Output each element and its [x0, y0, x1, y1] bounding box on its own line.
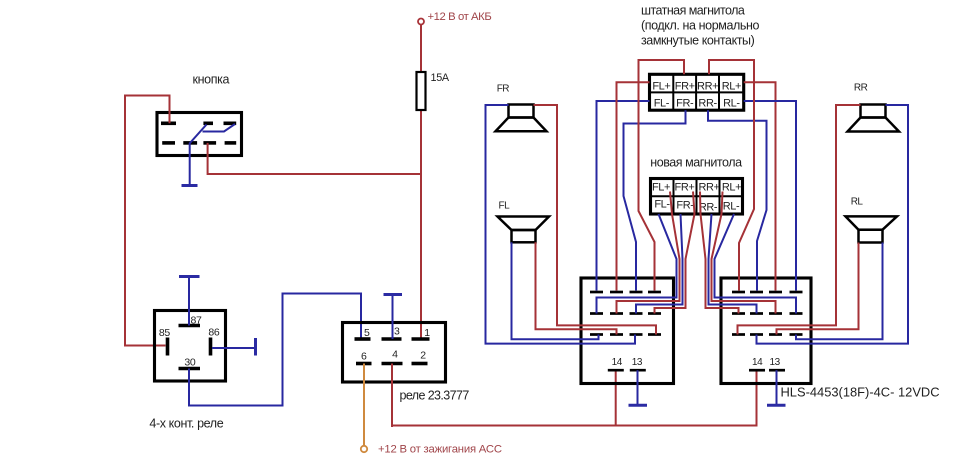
svg-text:2: 2 — [420, 350, 426, 362]
antenna bar pin87 — [179, 275, 200, 278]
K3 row2 pins — [590, 312, 661, 315]
ground bar K4 — [767, 404, 786, 407]
svg-text:новая магнитола: новая магнитола — [650, 156, 742, 170]
svg-text:RR: RR — [854, 83, 868, 94]
svg-text:RL-: RL- — [723, 201, 740, 213]
svg-text:RR+: RR+ — [697, 80, 718, 92]
wire new FR- to K3 row2 col3 (blue) — [636, 214, 683, 314]
wire stock FR+ staple to K3 row1 col4 (red) — [639, 60, 685, 291]
svg-text:замкнутые контакты): замкнутые контакты) — [641, 33, 755, 47]
wire stock FR- to K3 row1 col3 (blue) — [624, 110, 686, 290]
wire new FL- to K3 row2 col1 (blue) — [597, 214, 677, 314]
svg-text:FR+: FR+ — [675, 182, 695, 194]
relay K2 pin 6 — [356, 362, 372, 366]
svg-text:RL+: RL+ — [722, 182, 741, 194]
svg-text:RR-: RR- — [699, 202, 718, 214]
stock connector dividers — [650, 74, 744, 110]
svg-text:FL-: FL- — [654, 199, 670, 211]
wire bus to left relay pin14 — [615, 370, 617, 426]
svg-text:+12 В от АКБ: +12 В от АКБ — [428, 11, 492, 23]
wire button to fuse line (red) — [208, 143, 421, 174]
relay K2 pin 2 — [412, 362, 428, 366]
K4 row1 pins — [732, 291, 803, 294]
svg-text:86: 86 — [208, 326, 219, 338]
wire pin4 down (red) — [391, 364, 393, 428]
wire stock FL+ to K3 row1 col2 (red) — [617, 82, 650, 290]
wire new FR+ to K3 row2 col4 (red) — [655, 192, 695, 314]
wire K3 pin13 ground stem — [637, 370, 639, 404]
svg-text:3: 3 — [394, 326, 400, 338]
relay K1 pin 30 — [179, 367, 201, 371]
wire new FL+ to K3 row2 col2 (red) — [617, 192, 680, 314]
wire pin30 to relay23 pin5 (blue) — [189, 294, 361, 406]
svg-text:87: 87 — [191, 315, 202, 327]
wire button ground stem — [189, 143, 191, 185]
wire pin87 up — [188, 278, 190, 326]
button ground bar — [182, 184, 198, 187]
svg-text:FL+: FL+ — [652, 80, 670, 92]
svg-text:FR-: FR- — [676, 98, 694, 110]
wire new RL+ to K4 row2 col3 (red) — [712, 192, 776, 314]
new labels row2 — [654, 199, 740, 214]
svg-text:RR-: RR- — [698, 98, 717, 110]
relay K4 right HLS box — [721, 278, 811, 384]
relay K1 pin 86 — [209, 338, 213, 356]
relay K2 pin 4 — [382, 362, 403, 366]
wire new RL- to K4 row2 col4 (blue) — [715, 214, 797, 314]
svg-text:13: 13 — [632, 357, 643, 368]
bottom bus red — [392, 425, 757, 427]
svg-text:HLS-4453(18F)-4C- 12VDC: HLS-4453(18F)-4C- 12VDC — [781, 385, 940, 400]
svg-text:RR+: RR+ — [698, 182, 719, 194]
wire new RR+ to K4 row2 col1 (red) — [700, 192, 739, 314]
K4 pin 14 — [749, 369, 765, 372]
new connector box — [651, 179, 743, 215]
button S1 box — [157, 113, 242, 156]
button pin bottom-1 — [162, 141, 175, 145]
terminal ACC — [361, 446, 367, 452]
wire new RR- to K4 row2 col2 (blue) — [709, 214, 757, 314]
speaker RR body — [861, 105, 886, 118]
svg-text:FR: FR — [497, 83, 510, 94]
new labels row1 — [652, 182, 741, 194]
speaker FR cone — [496, 118, 547, 132]
svg-text:15A: 15A — [431, 72, 450, 84]
svg-text:штатная магнитола: штатная магнитола — [641, 4, 745, 18]
relay K1 pin 85 — [166, 338, 170, 356]
stock connector box — [650, 74, 744, 110]
speaker RL body — [859, 230, 883, 243]
wire RL- to K4 row3 col4 (blue) — [796, 243, 883, 340]
svg-text:5: 5 — [364, 327, 370, 339]
button pin bottom-4 — [225, 141, 237, 145]
ground bar above pin3 — [384, 293, 403, 296]
svg-text:FR-: FR- — [676, 200, 694, 212]
fuse F1 15A — [417, 72, 426, 110]
stock labels row1 — [652, 80, 741, 92]
ground bar right of 86 — [254, 338, 257, 356]
svg-text:1: 1 — [424, 327, 430, 339]
svg-text:14: 14 — [612, 357, 623, 368]
terminal +12 AKB — [418, 19, 424, 25]
wire bus to right relay pin14 — [756, 370, 758, 426]
wire pin6 to ACC (orange) — [363, 364, 365, 446]
K4 pin 13 — [769, 369, 785, 372]
wire FL+ to K3 row3 col2 (red) — [536, 242, 617, 334]
K3 row3 pins — [590, 333, 661, 336]
svg-text:реле 23.3777: реле 23.3777 — [400, 389, 470, 403]
ground bar K3 — [629, 404, 648, 407]
svg-text:(подкл. на нормально: (подкл. на нормально — [641, 19, 760, 33]
wire FL- to K3 row3 col1 (blue) — [512, 242, 599, 339]
svg-text:FL: FL — [499, 201, 511, 212]
K3 pin 13 — [630, 369, 646, 372]
svg-text:14: 14 — [752, 357, 763, 368]
wire FR- to K3 row3 col3 (blue) — [486, 105, 636, 344]
wire RR+ to K4 row3 col1 (red) — [738, 105, 861, 335]
K4 row2 pins — [732, 312, 803, 315]
relay K1 4-pin box — [155, 311, 226, 382]
speaker FL body — [512, 230, 536, 242]
wire pin3 ground stem — [392, 296, 394, 340]
relay K2 pin 3 — [382, 337, 402, 341]
wire stock RL+ to K4 row1 col3 (red) — [744, 82, 776, 290]
svg-text:RL+: RL+ — [722, 80, 741, 92]
svg-text:кнопка: кнопка — [193, 73, 230, 87]
button lever diagonal — [190, 125, 207, 144]
wire K4 pin13 ground stem — [776, 370, 778, 404]
svg-text:85: 85 — [159, 327, 170, 339]
wire pin86 to ground bar — [212, 347, 255, 349]
svg-text:4-х конт. реле: 4-х конт. реле — [149, 417, 223, 431]
speaker RR cone — [848, 118, 900, 132]
wire AKB to relay pin1 (red) — [420, 25, 422, 340]
svg-text:FR+: FR+ — [675, 80, 695, 92]
wire RL+ to K4 row3 col3 (red) — [777, 243, 859, 335]
speaker FR body — [509, 105, 534, 118]
speaker RL cone — [846, 216, 898, 229]
svg-text:RL-: RL- — [723, 98, 740, 110]
wire stock RL- to K4 row1 col4 (blue) — [744, 101, 796, 291]
K4 row3 pins — [732, 333, 803, 336]
svg-text:4: 4 — [392, 349, 398, 361]
svg-text:13: 13 — [770, 357, 781, 368]
button pin top-1 — [161, 122, 176, 126]
wire button to relay85 (red left loop) — [125, 96, 170, 346]
K3 row1 pins — [590, 291, 661, 294]
wire stock RR- to K4 row1 col2 (blue) — [708, 110, 767, 290]
button pin bottom-3 — [203, 141, 216, 145]
new connector dividers — [651, 179, 743, 215]
relay K2 pin 1 — [412, 337, 430, 341]
relay K3 left HLS box — [581, 278, 674, 384]
button lever arm — [203, 124, 236, 132]
relay K1 pin 87 — [179, 324, 201, 328]
button pin top-2 — [203, 122, 213, 126]
relay K2 pin 5 — [355, 337, 371, 341]
wire FR+ to K3 row3 col4 (red) — [534, 105, 657, 335]
relay K2 23.3777 box — [343, 323, 446, 383]
wire stock FL- to K3 row1 col1 (blue) — [597, 101, 650, 291]
wire stock RR+ staple to K4 row1 col1 (red) — [709, 60, 754, 291]
svg-text:6: 6 — [361, 351, 367, 363]
wire RR- to K4 row3 col2 (blue) — [757, 105, 909, 344]
button pin top-3 — [224, 122, 237, 126]
svg-text:FL-: FL- — [654, 98, 670, 110]
svg-text:+12 В от зажигания АСС: +12 В от зажигания АСС — [378, 444, 502, 456]
K3 pin 14 — [608, 369, 624, 372]
svg-text:RL: RL — [851, 197, 864, 208]
speaker FL cone — [498, 217, 550, 231]
svg-text:30: 30 — [184, 356, 195, 368]
svg-text:FL+: FL+ — [652, 182, 670, 194]
stock labels row2 — [654, 98, 741, 110]
button pin bottom-2 — [183, 141, 197, 145]
